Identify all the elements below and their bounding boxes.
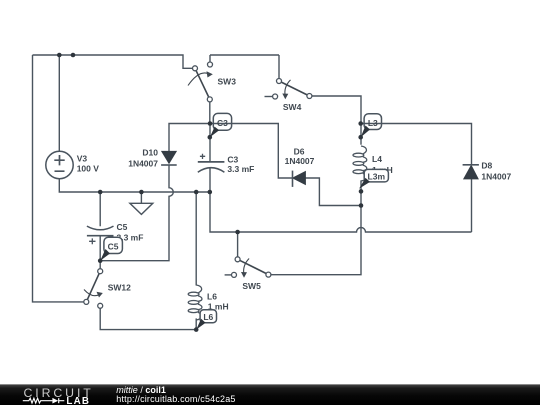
footer logo resistor-diode-LAB bbox=[23, 396, 90, 405]
wire top bus left bbox=[33, 55, 193, 68]
svg-text:V3: V3 bbox=[77, 153, 88, 163]
wire SW5 pivot drop bbox=[237, 232, 239, 257]
wire D6 right lead bbox=[305, 178, 361, 206]
wire L6 bottom lead bbox=[195, 318, 197, 329]
wire C5 leads bbox=[99, 192, 101, 268]
wire SW3 to node bbox=[209, 102, 211, 124]
svg-text:C5: C5 bbox=[108, 241, 119, 251]
diode D10 bbox=[128, 148, 176, 169]
ground bbox=[130, 192, 153, 214]
junction SW4/L4/D8 node bbox=[358, 121, 363, 126]
wire SW4 right to L3 node bbox=[312, 96, 361, 124]
junction top bus segment join bbox=[71, 53, 76, 58]
svg-text:SW12: SW12 bbox=[108, 282, 131, 292]
junction C5 top on ground bus bbox=[98, 190, 103, 195]
svg-text:L6: L6 bbox=[207, 291, 217, 301]
svg-text:L6: L6 bbox=[203, 312, 213, 322]
callout C3 text and pointer bbox=[208, 118, 229, 139]
wire SW4 left stub bbox=[265, 96, 273, 98]
wire left rail bbox=[33, 55, 84, 302]
junction ground stub bbox=[139, 190, 144, 195]
svg-text:3.3 mF: 3.3 mF bbox=[227, 164, 254, 174]
junction V3 top bus bbox=[57, 53, 62, 58]
switch SW12 bbox=[84, 269, 131, 309]
inductor L6 bbox=[188, 285, 202, 320]
inductor L4 bbox=[353, 146, 367, 181]
switch SW4 bbox=[273, 79, 312, 112]
callout box C3 bbox=[213, 113, 231, 130]
wire L6 top lead bbox=[195, 192, 197, 286]
svg-text:SW4: SW4 bbox=[283, 102, 302, 112]
svg-text:C3: C3 bbox=[217, 118, 228, 128]
callout box L3m bbox=[359, 169, 389, 193]
junction C3 bottom on ground bus bbox=[208, 190, 213, 195]
diode D6 bbox=[285, 146, 315, 187]
wire D10 cathode run bbox=[100, 165, 173, 261]
switch SW3 bbox=[188, 62, 236, 102]
svg-text:1N4007: 1N4007 bbox=[285, 156, 315, 166]
callout L3 text and pointer bbox=[358, 118, 378, 140]
junction SW3/C3/D10 node bbox=[208, 121, 213, 126]
callout box L3 bbox=[364, 114, 381, 130]
svg-text:C5: C5 bbox=[117, 222, 128, 232]
wire L4 top lead bbox=[360, 124, 362, 145]
wire L4 bottom to SW5 bbox=[271, 180, 361, 274]
svg-text:D10: D10 bbox=[142, 148, 158, 158]
junction L6 top on ground bus bbox=[194, 190, 199, 195]
svg-text:LAB: LAB bbox=[66, 396, 90, 405]
svg-text:1N4007: 1N4007 bbox=[481, 172, 511, 182]
svg-text:100 V: 100 V bbox=[77, 164, 100, 174]
svg-text:L3m: L3m bbox=[368, 171, 386, 181]
wire SW12 bottom to L6 bbox=[100, 309, 196, 330]
junction SW5 pivot on bus bbox=[235, 230, 240, 235]
svg-text:http://circuitlab.com/c54c2a5: http://circuitlab.com/c54c2a5 bbox=[116, 394, 235, 404]
wire right loop D8 bbox=[361, 124, 472, 233]
wire ground bus bbox=[59, 179, 210, 192]
switch SW5 bbox=[232, 257, 271, 291]
svg-text:SW5: SW5 bbox=[242, 281, 261, 291]
capacitor C3 bbox=[198, 154, 255, 175]
svg-text:SW3: SW3 bbox=[218, 76, 237, 86]
wire top bus right bbox=[210, 55, 279, 78]
wire mid bus to D6 bbox=[169, 124, 293, 179]
footer title bbox=[116, 385, 235, 404]
callout box L6 bbox=[194, 310, 217, 332]
capacitor C5 bbox=[87, 222, 144, 244]
wire SW5 left stub bbox=[225, 274, 232, 276]
junction D6/L4 node bbox=[359, 203, 364, 208]
svg-text:D8: D8 bbox=[481, 160, 492, 170]
wire C3 top lead bbox=[209, 124, 211, 162]
wire V3 top lead bbox=[58, 55, 60, 151]
callout box C5 bbox=[98, 237, 123, 263]
diode D8 bbox=[463, 160, 512, 181]
footer bar bbox=[0, 384, 540, 405]
svg-text:L3: L3 bbox=[368, 118, 378, 128]
wire C3 bottom to bus232 bbox=[210, 168, 472, 232]
svg-text:C3: C3 bbox=[227, 155, 238, 165]
footer logo CIRCUIT bbox=[24, 386, 94, 400]
svg-text:D6: D6 bbox=[294, 146, 305, 156]
svg-text:1N4007: 1N4007 bbox=[128, 159, 158, 169]
voltage source V3 bbox=[46, 151, 99, 178]
svg-text:L4: L4 bbox=[372, 154, 382, 164]
